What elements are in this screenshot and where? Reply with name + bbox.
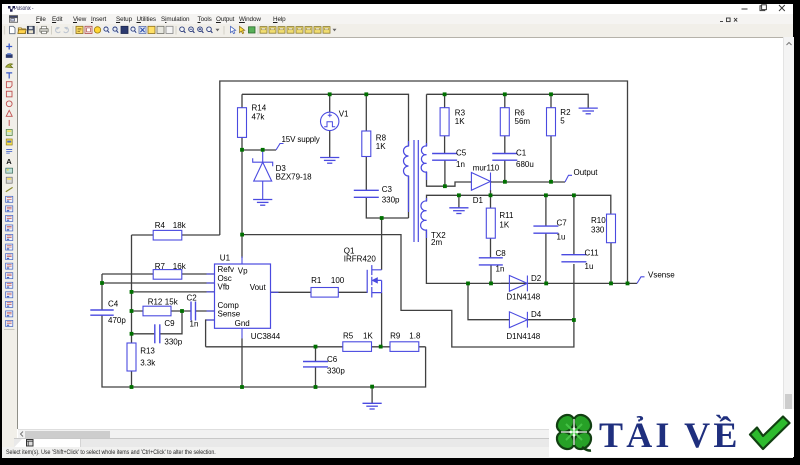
svg-text:330p: 330p xyxy=(327,366,345,375)
svg-text:680u: 680u xyxy=(516,160,534,169)
svg-text:D1N4148: D1N4148 xyxy=(506,332,540,341)
svg-text:15V supply: 15V supply xyxy=(282,135,320,144)
svg-text:R13: R13 xyxy=(140,347,155,356)
svg-text:1n: 1n xyxy=(190,320,199,329)
svg-text:R14: R14 xyxy=(252,103,267,112)
svg-text:2m: 2m xyxy=(431,238,442,247)
svg-text:5: 5 xyxy=(560,116,565,125)
svg-text:Refv: Refv xyxy=(218,265,234,274)
svg-text:Output: Output xyxy=(574,168,599,177)
svg-text:C1: C1 xyxy=(516,149,527,158)
svg-text:1u: 1u xyxy=(557,233,566,242)
svg-text:D1N4148: D1N4148 xyxy=(506,292,540,301)
svg-text:R5: R5 xyxy=(343,332,354,341)
svg-text:R1: R1 xyxy=(311,276,322,285)
svg-text:1K: 1K xyxy=(376,142,386,151)
svg-text:Vout: Vout xyxy=(250,283,267,292)
svg-text:16k: 16k xyxy=(173,262,187,271)
svg-text:D4: D4 xyxy=(531,310,542,319)
svg-text:R4: R4 xyxy=(155,221,166,230)
svg-text:C4: C4 xyxy=(108,300,119,309)
svg-text:C8: C8 xyxy=(496,249,507,258)
svg-text:100: 100 xyxy=(331,276,345,285)
svg-text:1K: 1K xyxy=(455,117,465,126)
svg-text:R9: R9 xyxy=(390,332,401,341)
svg-text:1n: 1n xyxy=(496,265,505,274)
svg-text:3.3k: 3.3k xyxy=(140,358,156,367)
svg-text:C11: C11 xyxy=(585,248,600,257)
svg-text:47k: 47k xyxy=(252,113,266,122)
svg-text:Sense: Sense xyxy=(218,310,241,319)
svg-text:C3: C3 xyxy=(382,185,393,194)
svg-text:1u: 1u xyxy=(585,262,594,271)
svg-text:1n: 1n xyxy=(456,160,465,169)
svg-text:56m: 56m xyxy=(515,117,531,126)
svg-text:C6: C6 xyxy=(327,355,338,364)
svg-text:1.8: 1.8 xyxy=(409,332,421,341)
svg-text:UC3844: UC3844 xyxy=(251,332,281,341)
svg-text:R10: R10 xyxy=(591,216,606,225)
svg-text:C5: C5 xyxy=(456,149,467,158)
svg-text:C7: C7 xyxy=(557,218,568,227)
svg-text:18k: 18k xyxy=(173,221,187,230)
svg-text:C9: C9 xyxy=(164,319,175,328)
svg-text:D1: D1 xyxy=(473,196,484,205)
svg-text:1K: 1K xyxy=(363,332,373,341)
svg-text:R7: R7 xyxy=(155,262,166,271)
svg-text:R11: R11 xyxy=(499,211,514,220)
svg-text:R12: R12 xyxy=(148,297,163,306)
svg-text:330p: 330p xyxy=(382,196,400,205)
svg-text:15k: 15k xyxy=(165,297,179,306)
svg-text:330: 330 xyxy=(591,225,605,234)
svg-text:1K: 1K xyxy=(499,220,509,229)
svg-text:Vfb: Vfb xyxy=(218,283,231,292)
svg-text:Vp: Vp xyxy=(238,267,248,276)
svg-text:470p: 470p xyxy=(108,316,126,325)
svg-text:IRFR420: IRFR420 xyxy=(344,254,377,263)
svg-text:U1: U1 xyxy=(220,254,231,263)
svg-text:BZX79-18: BZX79-18 xyxy=(276,172,313,181)
svg-text:330p: 330p xyxy=(164,337,182,346)
svg-text:D2: D2 xyxy=(531,274,542,283)
svg-text:Vsense: Vsense xyxy=(648,271,675,280)
svg-text:V1: V1 xyxy=(339,110,349,119)
svg-text:C2: C2 xyxy=(187,293,198,302)
svg-text:Gnd: Gnd xyxy=(235,319,250,328)
svg-text:mur110: mur110 xyxy=(473,163,500,172)
